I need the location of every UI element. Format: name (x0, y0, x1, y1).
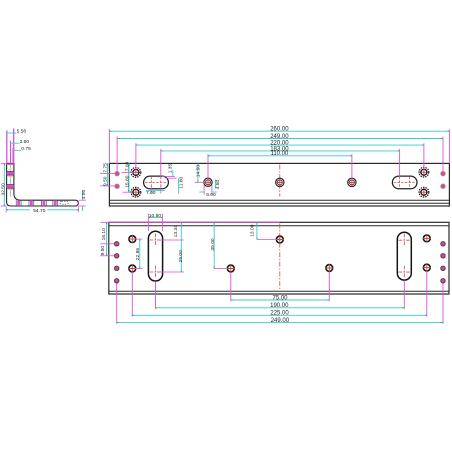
dim 13.00 (to top mid hole) (250, 223, 276, 240)
dim 7.00 below left slot (146, 185, 165, 196)
slot right centerlines (red dashed) (394, 181, 416, 183)
svg-text:11.80: 11.80 (179, 176, 185, 188)
slot left cross top (150, 234, 162, 247)
dim 260.00 (109, 127, 449, 133)
slot right cross bottom (398, 266, 410, 279)
cross hole BR1 (423, 234, 431, 242)
hidden slot (dashed) near right end of leg (60, 201, 69, 204)
dim 32.50 (left vertical) (0, 163, 6, 206)
mid hole lower-right (x=329) (325, 264, 333, 272)
svg-text:35.00: 35.00 (210, 238, 216, 251)
svg-text:7.00: 7.00 (146, 190, 156, 196)
svg-text:249.00: 249.00 (270, 134, 289, 140)
dim 75.00 (231, 295, 329, 301)
hole sections (horizontal leg) (16, 200, 58, 206)
vertical slot left (148, 231, 162, 281)
slot left (obround) (144, 176, 169, 189)
svg-text:6.00: 6.00 (206, 192, 216, 198)
hole section (vertical leg, lower) (7, 185, 14, 191)
dim 16.10 / 9.50 (left edge) (100, 222, 114, 256)
extension lines below plate (117, 271, 443, 323)
bend line 1 (109, 199, 449, 201)
centerline (red dash-dot) at x=280 (279, 223, 281, 292)
inner wall line of vertical leg (10, 165, 12, 197)
svg-text:249.00: 249.00 (271, 318, 290, 324)
counterbore hole R2 (419, 187, 429, 197)
cross hole BR2 (423, 264, 431, 272)
plate outline (109, 163, 449, 206)
dim 183.00 (161, 146, 400, 152)
centerline (red dash-dot) at x=280 (279, 165, 281, 197)
dim 0.75 (13, 146, 31, 163)
mid hole top (x=280) (276, 235, 284, 243)
dims 1.35 / 11.80 near left slot (162, 164, 185, 194)
svg-text:9.50: 9.50 (102, 176, 108, 186)
counterbore hole R1 (419, 167, 429, 177)
svg-text:1.35: 1.35 (167, 164, 173, 174)
dim 2.50 (11, 139, 30, 163)
dim 6.00 (hole A diameter) (199, 185, 216, 198)
svg-text:13.00: 13.00 (250, 224, 256, 237)
svg-text:9.50: 9.50 (100, 246, 106, 256)
small holes left column (115, 242, 119, 246)
slot left cross bottom (150, 266, 162, 279)
bend line 2 (109, 202, 449, 204)
cross hole BL1 (128, 235, 136, 243)
left side dims 7.75 / 9.50 (100, 163, 115, 186)
inner top edge (109, 225, 449, 227)
small hole TR1 (441, 171, 445, 175)
svg-text:7.00: 7.00 (124, 162, 130, 172)
small hole TR2 (441, 184, 445, 188)
svg-text:13.34: 13.34 (173, 225, 179, 238)
extension lines above plate (109, 129, 449, 180)
dim 10.80 (slot width, above) (148, 213, 162, 231)
svg-text:16.10: 16.10 (101, 228, 107, 241)
small hole TL2 (115, 184, 119, 188)
svg-text:2.50: 2.50 (20, 139, 30, 145)
svg-text:14.50: 14.50 (195, 165, 201, 178)
plain hole B (x=280) (276, 178, 284, 186)
dim 22.86 (cross holes) (135, 239, 143, 268)
svg-text:7.75: 7.75 (102, 163, 108, 173)
counterbore hole L2 (131, 187, 141, 197)
vertical slot right (397, 232, 411, 280)
small hole TL1 (115, 171, 119, 175)
dims 7.00 / 15.80 (counterbore column) (122, 162, 138, 193)
extension line along top edge (magenta) (101, 221, 280, 223)
svg-text:4.50: 4.50 (215, 180, 221, 190)
top tick of leg (7, 164, 14, 165)
slot left centerlines (red dashed) (145, 181, 167, 183)
hole section (vertical leg, upper) (7, 169, 14, 177)
counterbore hole L1 (131, 168, 141, 178)
dim 220.00 (136, 141, 424, 147)
svg-text:4.50: 4.50 (81, 189, 87, 199)
svg-text:25.00: 25.00 (178, 250, 184, 263)
svg-text:260.00: 260.00 (270, 127, 289, 133)
dim 249.00 (117, 318, 443, 324)
dim 5.58 (top) (7, 129, 27, 164)
mid hole lower-left (x=231) (227, 264, 235, 272)
svg-text:32.50: 32.50 (0, 183, 6, 196)
svg-text:5.58: 5.58 (17, 129, 27, 135)
inner bottom edge (109, 290, 449, 292)
svg-text:54.70: 54.70 (33, 208, 46, 214)
svg-text:190.00: 190.00 (270, 303, 289, 309)
plain hole A (x=208) (204, 178, 212, 186)
slot right cross top (398, 234, 410, 247)
dim 190.00 (156, 303, 405, 309)
dims 13.34 / 25.00 (slot crosses) (157, 223, 184, 272)
dim 35.00 (to lower mid hole) (210, 223, 227, 269)
dim 249.00 (118, 134, 444, 140)
cross hole BL2 (128, 264, 136, 272)
svg-text:22.86: 22.86 (135, 248, 141, 261)
dim 14.50 (hole A from top) (195, 163, 204, 182)
svg-text:15.80: 15.80 (124, 175, 130, 188)
plate outline (109, 222, 449, 294)
dim 4.50 (right of leg) (79, 189, 87, 211)
dim 54.70 (bottom) (6, 206, 78, 214)
svg-text:10.80: 10.80 (149, 213, 162, 219)
dim 225.00 (132, 311, 427, 317)
small holes right column (441, 242, 445, 246)
svg-text:110.00: 110.00 (270, 151, 289, 157)
svg-text:75.00: 75.00 (272, 295, 288, 301)
dim 110.00 (208, 151, 352, 157)
plain hole C (x=352) (348, 178, 356, 186)
dim 4.50 (right of hole A) (215, 180, 221, 190)
svg-text:225.00: 225.00 (270, 311, 289, 317)
slot right (obround) (392, 176, 417, 189)
svg-text:0.75: 0.75 (21, 146, 31, 152)
L-bracket outline (7, 163, 79, 206)
